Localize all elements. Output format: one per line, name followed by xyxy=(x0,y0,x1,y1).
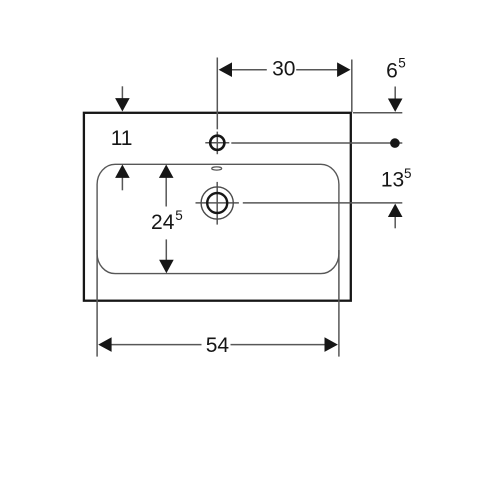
svg-text:24: 24 xyxy=(151,211,175,234)
svg-text:54: 54 xyxy=(206,334,230,357)
svg-text:6: 6 xyxy=(386,60,398,83)
svg-text:30: 30 xyxy=(272,58,295,81)
svg-text:5: 5 xyxy=(398,56,406,71)
svg-text:5: 5 xyxy=(404,166,412,181)
svg-text:11: 11 xyxy=(111,127,133,150)
svg-text:13: 13 xyxy=(381,169,404,192)
svg-text:5: 5 xyxy=(175,208,183,223)
